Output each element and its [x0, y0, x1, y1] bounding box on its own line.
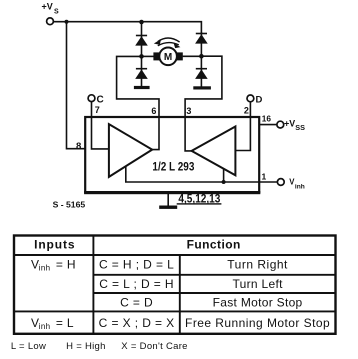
svg-text:Function: Function — [187, 237, 241, 251]
svg-text:+V: +V — [42, 1, 53, 11]
svg-text:C = D: C = D — [120, 295, 153, 309]
svg-text:D: D — [256, 94, 263, 105]
svg-text:SS: SS — [295, 123, 305, 132]
svg-text:inh: inh — [39, 322, 51, 331]
svg-text:H = High: H = High — [66, 341, 106, 352]
svg-text:2: 2 — [244, 106, 249, 116]
svg-text:= H: = H — [56, 257, 76, 271]
svg-text:C: C — [97, 95, 104, 106]
svg-text:X = Don't Care: X = Don't Care — [121, 341, 187, 352]
svg-text:Turn Left: Turn Left — [232, 277, 283, 291]
svg-text:S: S — [54, 9, 59, 16]
svg-text:Inputs: Inputs — [34, 237, 75, 251]
svg-text:+V: +V — [284, 118, 295, 128]
svg-text:8: 8 — [76, 141, 81, 152]
svg-text:3: 3 — [186, 106, 191, 116]
svg-text:inh: inh — [295, 183, 305, 190]
svg-text:C = L ; D = H: C = L ; D = H — [99, 277, 174, 291]
svg-text:16: 16 — [262, 114, 272, 124]
svg-text:7: 7 — [95, 105, 100, 115]
svg-text:L = Low: L = Low — [11, 341, 46, 352]
svg-text:inh: inh — [39, 264, 51, 273]
svg-text:C = X ; D = X: C = X ; D = X — [99, 316, 175, 330]
svg-text:Fast Motor Stop: Fast Motor Stop — [213, 295, 303, 309]
svg-text:S - 5165: S - 5165 — [53, 201, 86, 210]
svg-text:Free Running Motor Stop: Free Running Motor Stop — [185, 316, 330, 330]
svg-text:1/2 L 293: 1/2 L 293 — [152, 161, 194, 173]
svg-text:= L: = L — [56, 316, 74, 330]
svg-text:6: 6 — [151, 106, 156, 116]
svg-text:1: 1 — [262, 172, 267, 182]
svg-text:Turn Right: Turn Right — [227, 257, 288, 271]
svg-text:M: M — [164, 52, 172, 63]
svg-text:C = H ; D = L: C = H ; D = L — [99, 257, 174, 271]
